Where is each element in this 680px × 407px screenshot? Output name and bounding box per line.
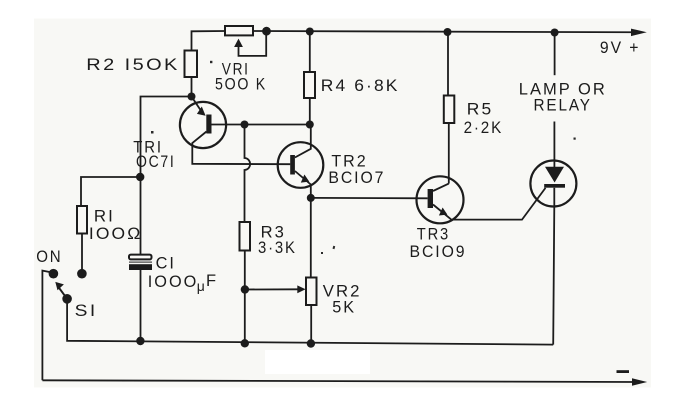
svg-text:5K: 5K [332,299,356,317]
svg-text:2·2K: 2·2K [464,119,504,137]
svg-text:OC7I: OC7I [136,153,176,171]
svg-text:RELAY: RELAY [534,97,592,115]
svg-text:IOOΩ: IOOΩ [89,225,142,243]
svg-text:TR2: TR2 [331,152,367,170]
svg-text:R5: R5 [467,100,494,118]
svg-text:SI: SI [75,302,98,320]
svg-text:IOOO: IOOO [148,273,199,291]
svg-text:9V +: 9V + [600,39,641,57]
svg-text:TR3: TR3 [417,226,450,244]
svg-text:R2 I5OK: R2 I5OK [86,56,180,74]
svg-text:BCIO7: BCIO7 [328,169,385,187]
svg-text:ON: ON [36,248,62,266]
svg-text:F: F [206,272,218,290]
svg-text:BCIO9: BCIO9 [410,243,467,261]
svg-text:3·3K: 3·3K [258,239,297,257]
svg-text:R4 6·8K: R4 6·8K [321,77,400,95]
svg-text:CI: CI [156,254,176,272]
svg-text:RI: RI [94,207,115,225]
svg-text:5OO K: 5OO K [215,75,267,93]
